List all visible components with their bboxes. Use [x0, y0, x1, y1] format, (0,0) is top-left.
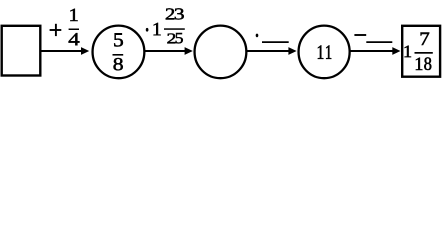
- output box 1 7/18: [402, 26, 440, 77]
- input box (left square): [2, 26, 41, 76]
- node circle 11: [299, 26, 350, 79]
- node circle 5/8: [93, 26, 145, 79]
- label minus blank: [354, 35, 392, 42]
- wire arrow 2: [145, 47, 193, 55]
- label plus 1/4: [50, 9, 80, 45]
- wire arrow 3: [247, 47, 297, 55]
- wire arrow 1: [41, 47, 89, 55]
- label times 1 23/25: [146, 8, 185, 43]
- node circle empty: [195, 26, 247, 79]
- label times blank: [256, 34, 289, 42]
- wire arrow 4: [350, 47, 401, 55]
